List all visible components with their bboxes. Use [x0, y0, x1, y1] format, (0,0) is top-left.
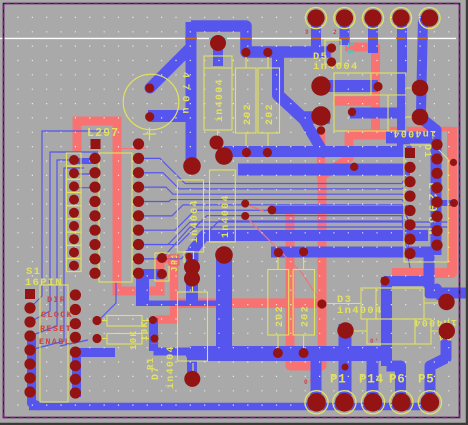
IC L298 outline [404, 145, 448, 262]
capacitor C1 pad top [145, 83, 154, 92]
svg-text:in4004: in4004 [189, 199, 201, 243]
orange crossing 2 [240, 37, 252, 39]
capacitor C1 outline [123, 74, 179, 130]
resistor R6 leads [267, 57, 269, 146]
svg-text:P5: P5 [418, 373, 435, 387]
svg-text:0': 0' [370, 338, 380, 345]
resistor R4 pad top [299, 247, 308, 256]
IC L297 left pad 4 [89, 182, 100, 193]
diode D7 lead [192, 363, 194, 371]
resistor R5 pad top [241, 48, 250, 57]
wire thin L297-L298 signal 5 [139, 205, 411, 225]
wire thin L297-L298 signal 7 [139, 216, 411, 254]
IC L297 left pad 9 [89, 253, 100, 264]
IC L297 right pad 7 [133, 239, 144, 250]
resistor R2 left pad [92, 334, 101, 343]
pad top-3 [362, 7, 383, 28]
IC L298 left pad 7 [404, 234, 415, 245]
wire stub to pad below bus [187, 358, 197, 378]
IC L298 left pad 2 [404, 162, 415, 173]
wire thin left loop 4 [30, 168, 84, 350]
header JP2 pad 7 [69, 234, 79, 244]
svg-text:in4004: in4004 [214, 78, 226, 122]
connector S1 left pad 3 [24, 316, 35, 327]
wire thin L297-L298 signal 4 [139, 200, 411, 211]
connector S1 right pad 16 [70, 387, 81, 398]
IC L297 right pad 6 [133, 225, 144, 236]
wire D4 pad to pad P14 via bus [339, 324, 352, 400]
wire thin L297 row2 link [75, 173, 95, 175]
connector S1 right pad 10 [70, 304, 81, 315]
via small b [241, 212, 249, 220]
connector S1 pin1 square pad [25, 289, 35, 299]
wire red from pad B1-2 down [317, 130, 326, 178]
IC L298 left pad 4 [404, 191, 415, 202]
svg-text:1n4004: 1n4004 [221, 194, 232, 238]
resistor R4 outline [293, 270, 314, 336]
IC L297 left pad 8 [89, 239, 100, 250]
wire D1 bottom pad down [216, 253, 232, 352]
diode D2 outline [177, 180, 203, 252]
header JP2 pad 4 [69, 195, 79, 205]
wire bar-A B1 left [321, 80, 378, 92]
wire upper bus [193, 346, 379, 361]
via V-354 [350, 163, 358, 171]
via bottom-middle [342, 364, 349, 371]
wire thin red to salmon vertical [245, 204, 266, 212]
diode D5 outline [325, 40, 341, 64]
header JP2 pad 8 [69, 247, 79, 257]
bridge B1 lead1 [406, 87, 413, 89]
resistor R3 pad bottom [273, 348, 283, 358]
svg-text:202: 202 [265, 103, 276, 125]
IC L298 left pad 8 [404, 248, 415, 259]
wire thin L297-L298 signal 6 [139, 210, 411, 239]
IC L298 left pad 6 [404, 219, 415, 230]
resistor R2 outline [107, 334, 142, 345]
header JP2 pad 3 [69, 181, 79, 191]
diode D2 top pad [183, 157, 201, 175]
wire red S2 wide [349, 130, 394, 140]
wire pad P-top3 stub [368, 18, 378, 53]
pad D7 bottom [184, 371, 200, 387]
wire D6 pad stub [213, 43, 223, 66]
wire red S2 thin [390, 127, 452, 132]
svg-text:470u: 470u [179, 72, 191, 119]
svg-text:in4004: in4004 [392, 127, 436, 139]
orange crossing 7 [418, 37, 428, 39]
wire thin L297-L298 signal 2 [139, 173, 411, 189]
wire D2 bottom pads down [186, 250, 198, 303]
wire bus down to pad P6 [367, 356, 379, 400]
wire S1 left column down [32, 333, 41, 407]
wire thin red diag to salmon [245, 216, 321, 302]
IC L298 right pad 6 [431, 225, 442, 236]
IC L298 right pad 5 [431, 211, 442, 222]
wire red D5 net long [290, 47, 376, 366]
IC L297 right pad 2 [133, 167, 144, 178]
capacitor C1 pad bottom [145, 112, 154, 121]
wire thin left loop 1 [30, 131, 110, 308]
diode D7 red mark [151, 336, 159, 344]
resistor R1 leads [97, 321, 149, 339]
capacitor C2 pad [185, 253, 192, 260]
node pad cap-region [135, 140, 143, 148]
wire bottom bus [29, 403, 430, 411]
wire S1 right bar [74, 348, 115, 357]
svg-text:16PIN: 16PIN [25, 277, 63, 289]
header JP2 boxes [67, 153, 82, 166]
wire bus corner to pad P1 [311, 356, 322, 400]
svg-text:D7: D7 [151, 365, 162, 380]
svg-text:D1: D1 [421, 144, 432, 159]
connector S1 left pad 7 [24, 372, 35, 383]
IC L297 right pad 0 [133, 138, 144, 149]
wire red D3 band [173, 298, 322, 308]
capacitor C2 outline [184, 252, 194, 263]
wire L298 bottom exit [429, 256, 468, 293]
resistor R1 outline [107, 316, 142, 327]
resistor R5 pad bottom [242, 148, 251, 157]
wire S1 right column down [72, 348, 81, 397]
wire 10K-net to bus [154, 348, 193, 356]
wire bar4 [193, 236, 428, 262]
jumper JP3 pad 1 [157, 253, 167, 263]
resistor R3 outline [268, 270, 289, 336]
via V-378 [373, 82, 382, 91]
orange crossing 3 [311, 37, 321, 39]
IC L297 left pad 7 [89, 225, 100, 236]
pad top-1 [305, 7, 326, 28]
capacitor C2 red frame [169, 255, 179, 265]
connector S1 right pad 12 [70, 332, 81, 343]
wire red L297 net [77, 121, 160, 291]
wire jog to pad P14b [387, 366, 401, 400]
wire thin lower signal 1 [139, 222, 449, 245]
wire thin L297-L298 signal 3 [139, 187, 411, 196]
bridge B1 pad2 [311, 106, 330, 125]
wire elbow to L298 pin1 [402, 140, 409, 151]
IC L297 pin1 square pad [91, 139, 101, 149]
IC L298 right pad 7 [431, 240, 442, 251]
IC L298 right pad 2 [431, 168, 442, 179]
wire pad P-top4 stub [397, 16, 407, 146]
pad bottom-3 [361, 391, 384, 414]
node pad D3 left [317, 299, 326, 308]
wire bar1 to L298 pin1 [224, 146, 410, 157]
wire thin left loop 2 [30, 152, 98, 322]
connector S1 right pad 14 [70, 360, 81, 371]
resistor R6 pad bottom [263, 148, 272, 157]
connector S1 right pad 11 [70, 318, 81, 329]
pad bar3 left [268, 206, 277, 215]
IC L298 right pad 4 [431, 196, 442, 207]
resistor R3 leads [277, 257, 279, 349]
wire thin L297-L298 signal 8 [139, 221, 411, 268]
diode D6 bottom pad [210, 136, 224, 150]
wire via-453 link [437, 200, 455, 206]
wire bar3 [272, 206, 410, 214]
connector S1 outline [40, 285, 68, 402]
wire thin L297 row3 link [75, 187, 95, 189]
diode D2 bottom pad b [184, 271, 200, 287]
svg-text:202: 202 [275, 305, 286, 327]
IC L297 left pad 2 [89, 153, 100, 164]
diode D3 right pad [438, 294, 454, 310]
svg-text:DIR: DIR [47, 295, 66, 305]
IC L297 right pad 3 [133, 181, 144, 192]
wire JP3 link [137, 269, 163, 279]
IC L297 right pad 9 [133, 268, 144, 279]
wire diagonal cap to top bar [150, 47, 191, 88]
via V-453b [450, 199, 458, 207]
wire bar upper [350, 108, 402, 119]
svg-text:0': 0' [304, 379, 314, 386]
via V-453a [450, 159, 457, 166]
horizontal reference line [0, 37, 456, 39]
IC L297 left pad 6 [89, 210, 100, 221]
diode D2 bottom pad a [184, 259, 200, 275]
diode D5 pad2 [327, 57, 336, 66]
header JP2 pad 6 [69, 221, 79, 231]
IC L298 pin1 square pad [405, 148, 415, 158]
diode D3 leads [327, 302, 441, 305]
wire diagonal into bar1 [303, 118, 323, 152]
resistor R5 outline [236, 68, 257, 133]
diode D1 top pad [215, 147, 233, 165]
resistor R5 leads [245, 57, 247, 146]
resistor R3 pad top [274, 248, 283, 257]
jumper JP3 outline [155, 253, 169, 281]
capacitor C1 plus mark [143, 128, 156, 141]
pad top-4 [390, 7, 411, 28]
bridge B1 pad3 [412, 80, 429, 97]
resistor R2 right pad [151, 335, 159, 343]
header JP2 pad 5 [69, 208, 79, 218]
wire V2 right of L298 [422, 119, 436, 255]
wire thin lower signal 2 [139, 227, 449, 259]
jumper JP3 pad 2 [157, 269, 167, 279]
wire to D4 right top pad [437, 288, 445, 301]
bridge B1 outline [334, 73, 406, 131]
diode D4 right pad [439, 323, 455, 339]
IC L297 left pad 5 [89, 196, 100, 207]
svg-text:10K: 10K [129, 330, 139, 350]
svg-text:202: 202 [243, 103, 254, 125]
wire D4 top pad up [437, 288, 446, 300]
wire thin red D5 pads [331, 44, 333, 64]
orange crossing 4 [339, 37, 350, 39]
wire L297 pad link [75, 158, 96, 164]
wire bar5 [271, 247, 434, 258]
svg-text:10K: 10K [140, 321, 150, 341]
wire JP3 down corner [136, 277, 149, 306]
wire long vertical right of D3 [381, 277, 392, 366]
wire D4 right pad down to pad P5 [430, 334, 446, 400]
connector S1 left pad 6 [24, 358, 35, 369]
svg-text:2: 2 [333, 29, 338, 36]
IC L298 right pad 3 [431, 182, 442, 193]
svg-text:P6: P6 [389, 373, 406, 387]
wire thin red link [118, 148, 146, 150]
via V-352 [348, 108, 356, 116]
wire top bar from cap to D5 [191, 26, 331, 52]
diode D5 pad1 [327, 43, 336, 52]
connector S1 left pad 4 [24, 330, 35, 341]
connector S1 right pad 9 [70, 289, 81, 300]
IC L297 right pad 4 [133, 196, 144, 207]
svg-text:P1: P1 [330, 373, 347, 387]
via V-281 [380, 276, 389, 285]
diode D4 leads [351, 330, 441, 332]
connector S1 left pad 5 [24, 344, 35, 355]
IC L297 right pad 8 [133, 253, 144, 264]
wire thin 10K diag [97, 282, 116, 322]
wire red JP3 to D7 [156, 259, 174, 320]
wire cap bottom pad to V1 [148, 110, 195, 122]
wire red B1 stub [334, 96, 375, 106]
IC L297 right pad 1 [133, 153, 144, 164]
resistor R1 right pad [149, 316, 157, 324]
IC L298 left pad 3 [404, 176, 415, 187]
connector S1 left pad 2 [24, 302, 35, 313]
wire pad P-top5 to B1 pad [421, 16, 423, 112]
IC L297 right pad 5 [133, 210, 144, 221]
svg-text:in4004: in4004 [165, 345, 177, 389]
IC L298 right pad 1 [431, 153, 442, 164]
resistor R1 left pad [92, 316, 101, 325]
connector S1 left pad 8 [24, 386, 35, 397]
wire bar under B1 text [386, 132, 436, 144]
wire pad P-top2 stub [340, 18, 350, 45]
svg-text:202: 202 [301, 305, 312, 327]
bridge B1 pad1 [311, 76, 330, 95]
wire thin bar over red band [142, 300, 219, 306]
diode D7 outline [178, 292, 208, 361]
IC L297 left pad 10 [89, 268, 100, 279]
resistor R4 leads [303, 257, 305, 349]
wire thin left loop 3 [30, 160, 90, 336]
via small a [241, 200, 249, 208]
bridge B1 lead2 [406, 116, 418, 118]
pad bottom-2 [333, 391, 356, 414]
pad bottom-1 [305, 391, 328, 414]
svg-text:P14: P14 [359, 373, 384, 387]
cyan crossing on pad D6-1 [209, 37, 227, 39]
wire 202 bar down-diagonal [278, 50, 305, 120]
pad top-5 [419, 7, 440, 28]
pad bottom-5 [418, 391, 441, 414]
diode D4 outline [367, 319, 431, 344]
connector S1 right pad 15 [70, 374, 81, 385]
svg-text:RESET: RESET [40, 324, 72, 334]
IC L297 outline [99, 153, 132, 282]
svg-text:0: 0 [305, 29, 310, 36]
wire red C right [392, 127, 452, 273]
wire via-281 bar right [384, 276, 428, 286]
pad bottom-4 [390, 391, 413, 414]
diode D6 lead [217, 130, 219, 140]
svg-text:1u: 1u [345, 42, 355, 55]
svg-text:L297: L297 [87, 127, 119, 140]
orange crossing 1 [185, 37, 197, 39]
resistor R6 outline [258, 68, 280, 133]
diode D1 bottom pad [215, 246, 233, 264]
diode D1 outline [210, 170, 236, 242]
IC L297 left pad 3 [89, 167, 100, 178]
diode D6 top pad [210, 35, 226, 51]
header JP2 pad 9 [69, 261, 79, 271]
orange crossing 6 [396, 37, 406, 39]
wire vertical V1 cap-net [186, 22, 197, 166]
diode D3 outline [361, 288, 424, 319]
connector S1 right pad 13 [70, 347, 81, 358]
resistor R6 pad top [263, 48, 272, 57]
diode D7 top lead [192, 283, 194, 292]
IC L298 right pad 0 [431, 139, 442, 150]
svg-text:CLOCK: CLOCK [41, 310, 73, 320]
via B1 small [317, 126, 325, 134]
diode D4 left pad [337, 322, 353, 338]
wire bar2 [238, 164, 410, 176]
wire thin S1 diag [60, 340, 88, 346]
wire bar-B to B1 pad [300, 111, 330, 124]
bridge B1 pad4 [412, 109, 429, 126]
wire 10K-net vertical [149, 318, 158, 351]
wire pad P-top1 stub [311, 18, 321, 52]
header JP2 pad 1 [69, 155, 79, 165]
wire thin L297-L298 signal 1 [139, 158, 411, 183]
orange crossing 5 [368, 37, 378, 39]
header JP2 pad 2 [69, 168, 79, 178]
pad top-2 [334, 7, 355, 28]
IC L298 left pad 5 [404, 205, 415, 216]
diode D6 outline [204, 56, 232, 130]
resistor R4 pad bottom [299, 348, 309, 358]
